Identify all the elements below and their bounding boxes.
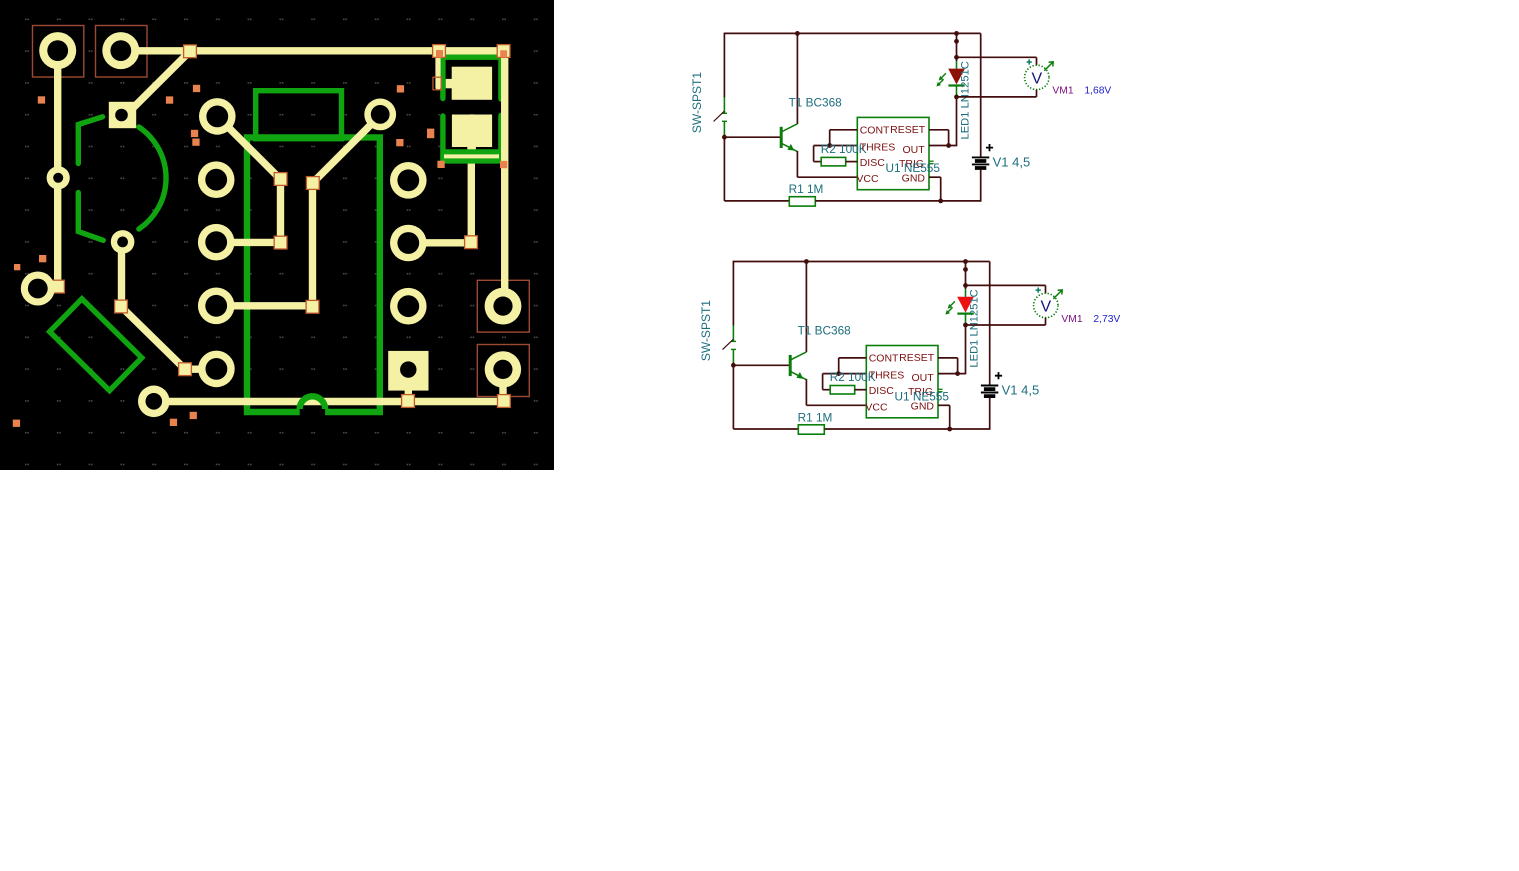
wire battery top [980, 33, 982, 157]
wire base net [724, 136, 780, 138]
svg-text:U1 NE555: U1 NE555 [886, 161, 941, 175]
svg-text:CONT: CONT [869, 353, 899, 365]
LED LED1 arrow 1 [941, 73, 946, 78]
pad frame square around pad P1 [33, 26, 84, 78]
wire CONT net [830, 129, 858, 131]
pad P11 [198, 288, 235, 325]
svg-text:LED1 LN1251C: LED1 LN1251C [960, 61, 972, 139]
pad P3 (square pad with hole) [109, 102, 136, 128]
svg-text:VM1: VM1 [1061, 314, 1082, 325]
via P4 [47, 166, 70, 189]
svg-text:V1 4,5: V1 4,5 [1002, 383, 1040, 398]
voltmeter VM1 arrow [1053, 290, 1062, 299]
pad P2 [102, 32, 139, 69]
junction LED b [954, 39, 959, 44]
wire LED stub from junction J2 down [435, 51, 440, 88]
LED LED1 triangle [957, 297, 974, 313]
pad P14 [390, 162, 427, 199]
transistor T1 emitter lead [790, 371, 806, 379]
marker square j [500, 161, 507, 168]
svg-text:T1 BC368: T1 BC368 [789, 96, 843, 110]
voltmeter VM1 circle [1025, 65, 1049, 89]
pad P18 [485, 288, 522, 325]
pad P10 [198, 224, 235, 261]
wire emitter to VCC [805, 379, 807, 405]
capacitor C silkscreen flat side [78, 117, 103, 241]
junction J6 [306, 177, 319, 190]
wire pad P1 down to junction J9 [54, 51, 61, 287]
voltmeter VM1 circle [1034, 293, 1058, 317]
wire RESET net [929, 129, 949, 131]
junction J11 [306, 300, 319, 313]
wire collector net [796, 33, 798, 124]
marker square b [193, 85, 200, 92]
resistor R1 body [789, 197, 815, 206]
wire DISC net [846, 161, 858, 163]
marker square g [396, 139, 403, 146]
voltmeter VM1 plus [1027, 59, 1032, 64]
junction J2 orange fill [436, 50, 443, 58]
transistor T1 base bar [789, 355, 792, 376]
wire bottom rail left [733, 428, 798, 430]
junction GND/bottom [938, 199, 943, 204]
junction J12 [179, 363, 192, 376]
svg-text:LED1 LN1251C: LED1 LN1251C [969, 289, 981, 367]
marker square e [192, 139, 199, 146]
LED LED1 cathode lead [956, 86, 958, 96]
voltmeter VM1 plus [1036, 288, 1041, 293]
junction J2 [433, 45, 446, 58]
wire bottom net pad P7 to junction J14 [154, 398, 504, 405]
switch SW-SPST1 contact tick top [722, 112, 727, 114]
transistor T1 emitter arrow [787, 144, 794, 151]
LED LED1 triangle [948, 69, 965, 85]
wire GND net [938, 404, 950, 406]
wire collector net [805, 261, 807, 352]
pad P12 [198, 351, 235, 388]
battery V1 plus [986, 144, 993, 151]
diode D silkscreen outline (rotated) [50, 299, 142, 391]
IC U1 silkscreen outline (DIP-8) [247, 137, 380, 412]
resistor R1 body [798, 425, 824, 434]
svg-text:RESET: RESET [899, 352, 935, 364]
svg-text:T1 BC368: T1 BC368 [798, 324, 852, 338]
wire junction J9 to pad P6 [38, 283, 58, 290]
marker square m [13, 420, 20, 427]
junction LED bottom [954, 95, 959, 100]
svg-text:DISC: DISC [860, 157, 886, 169]
junction J14 [498, 395, 511, 408]
wire voltmeter bottom [1045, 318, 1047, 325]
wire LED top [965, 262, 967, 290]
marker square a [38, 96, 45, 103]
switch SW-SPST1 pin bottom [732, 349, 734, 363]
junction LED bottom [963, 323, 968, 328]
wire RESET net [938, 357, 958, 359]
wire voltmeter bottom [1036, 90, 1038, 97]
pad P17 (square pad with hole) [388, 351, 428, 391]
wire voltmeter top [957, 56, 1037, 58]
junction LED b [963, 267, 968, 272]
wire left rail lower [723, 135, 725, 201]
resistor R silkscreen outline (top) [256, 91, 342, 139]
junction J9 [52, 280, 65, 293]
transistor T1 emitter arrow [796, 372, 803, 379]
wire OUT net [929, 145, 957, 147]
pad P19 [485, 351, 521, 387]
wire left rail lower [732, 363, 734, 429]
wire LED top [956, 33, 958, 61]
svg-text:VM1: VM1 [1052, 86, 1073, 97]
switch SW-SPST1 contact tick bottom [722, 120, 727, 122]
LED LED1 anode lead [965, 289, 967, 297]
junction CONT/THRES [827, 143, 832, 148]
junction J1 [184, 45, 197, 58]
svg-text:VCC: VCC [865, 401, 888, 413]
LED LED1 silkscreen right edge [498, 57, 503, 161]
wire GND net [929, 176, 941, 178]
junction J3 [497, 45, 510, 58]
pad P13 (resistor right) [364, 99, 396, 131]
LED LED1 cathode lead [965, 314, 967, 324]
PCB board background [0, 0, 554, 470]
capacitor C silkscreen circle [139, 127, 166, 229]
wire THRES net [814, 145, 858, 147]
LED LED1 SMD pad bottom [452, 115, 492, 148]
wire junction J10 diagonal to J12 to pad P12 [121, 307, 216, 370]
junction J3 orange fill [500, 50, 507, 57]
junction collector/top [795, 31, 800, 36]
wire LED bottom to OUT [956, 95, 958, 146]
wire battery top [989, 262, 991, 386]
pad P15 [390, 225, 427, 262]
LED LED1 silkscreen bottom bar 2 [442, 158, 501, 163]
marker square f [397, 85, 404, 92]
junction LED a [954, 31, 959, 36]
junction base [731, 363, 736, 368]
junction LED a [963, 259, 968, 264]
svg-text:CONT: CONT [860, 125, 890, 137]
junction CONT/THRES [836, 371, 841, 376]
LED LED1 footprint: inner pad strip [444, 154, 499, 159]
wire emitter to VCC [796, 151, 798, 177]
transistor T1 base bar [780, 127, 783, 148]
TRIG pin marks [929, 160, 933, 162]
transistor T1 collector lead [781, 124, 797, 132]
svg-text:R1 1M: R1 1M [789, 182, 824, 196]
svg-text:1,68V: 1,68V [1084, 86, 1111, 97]
pad P9 [198, 161, 235, 198]
svg-text:OUT: OUT [903, 144, 926, 156]
switch SW-SPST1 contact tick top [731, 340, 736, 342]
voltmeter VM1 arrow [1044, 62, 1053, 71]
wire voltmeter top [966, 284, 1046, 286]
junction J5 [274, 173, 287, 186]
wire base net [733, 364, 789, 366]
wire LED bottom to OUT [965, 323, 967, 374]
wire top net from pad P2 to LED corner [121, 47, 504, 54]
pad frame square around pad P18 [477, 280, 529, 332]
wire diagonal junction J1 to pad P3 [128, 51, 190, 113]
svg-text:U1 NE555: U1 NE555 [895, 389, 950, 403]
wire DISC net [855, 389, 867, 391]
marker square n [170, 419, 177, 426]
switch SW-SPST1 lever [714, 111, 725, 121]
marker square l [14, 264, 20, 270]
LED LED1 SMD pad top [452, 67, 492, 100]
marker square d [191, 130, 198, 137]
battery V1 plates [972, 157, 989, 164]
wire CONT net [839, 357, 867, 359]
wire pad P15 to junction J8 up to LED pad tab [408, 150, 471, 243]
LED LED1 cathode bar [948, 84, 964, 86]
transistor T1 emitter lead [781, 143, 797, 151]
wire pad P11 to junction J11 up to J6 diagonal to pad P13 [216, 116, 380, 306]
switch SW-SPST1 pin top [732, 325, 734, 341]
svg-text:THRES: THRES [860, 142, 896, 154]
battery V1 plus [995, 372, 1002, 379]
junction RESET/OUT [946, 143, 951, 148]
svg-text:R1 1M: R1 1M [798, 410, 833, 424]
wire OUT net [938, 373, 966, 375]
resistor R2 body [830, 386, 855, 395]
marker square k [39, 255, 46, 262]
svg-text:VCC: VCC [856, 173, 879, 185]
junction LED c [963, 283, 968, 288]
junction GND/bottom [947, 427, 952, 432]
svg-text:DISC: DISC [869, 385, 895, 397]
wire right vertical LED corner to pad P18 [501, 51, 508, 288]
junction J13 [402, 395, 415, 408]
wire top rail [733, 261, 989, 263]
IC U1 silkscreen notch (redrawn over bottom trace) [300, 396, 325, 409]
LED LED1 cathode bar [957, 313, 973, 315]
wire stub pad P19 to junction J14 [499, 386, 506, 402]
marker square o [190, 412, 197, 419]
marker square h [427, 129, 434, 139]
svg-text:V: V [1031, 71, 1042, 88]
wire battery bottom [989, 398, 991, 430]
LED LED1 silkscreen left edge [440, 57, 445, 162]
pad frame square around pad P19 [477, 345, 529, 397]
pad P8 (IC row left 1 / resistor) [199, 98, 236, 135]
wire bottom rail right [815, 200, 980, 202]
LED LED1 arrow 1 [950, 301, 955, 306]
LED LED1 arrow 2 [939, 79, 944, 84]
pad P6 [21, 272, 55, 306]
marker square c [166, 96, 173, 103]
resistor R2 body [821, 157, 846, 166]
LED LED1 silkscreen bottom bar 1 [444, 149, 499, 154]
junction J7 [274, 236, 287, 249]
LED LED1 pad tab left [446, 79, 452, 88]
marker square i [437, 161, 444, 168]
svg-text:V1 4,5: V1 4,5 [993, 155, 1031, 170]
TRIG pin marks [938, 388, 942, 390]
wire bottom rail right [824, 428, 989, 430]
svg-text:SW-SPST1: SW-SPST1 [699, 300, 713, 361]
pad P1 [39, 32, 76, 69]
LED LED1 arrow 2 [948, 307, 953, 312]
switch SW-SPST1 lever [723, 339, 734, 349]
switch SW-SPST1 pin top [723, 97, 725, 113]
pad P16 [390, 288, 427, 325]
switch SW-SPST1 contact tick bottom [731, 348, 736, 350]
wire stub pad P17 to junction J13 [405, 388, 412, 402]
IC U1 NE555 box [857, 117, 929, 189]
junction J10 [115, 300, 128, 313]
svg-text:RESET: RESET [890, 124, 926, 136]
svg-text:SW-SPST1: SW-SPST1 [690, 72, 704, 133]
LED LED1 silkscreen top edge [440, 54, 503, 60]
battery V1 plates [981, 386, 998, 393]
svg-text:THRES: THRES [869, 370, 905, 382]
wire bottom rail left [724, 200, 789, 202]
svg-text:2,73V: 2,73V [1093, 314, 1120, 325]
junction RESET/OUT [955, 371, 960, 376]
transistor T1 collector lead [790, 352, 806, 360]
LED LED1 anode lead [956, 61, 958, 69]
wire pad P5 down to junction J10 [118, 242, 125, 307]
junction base [722, 135, 727, 140]
junction LED c [954, 55, 959, 60]
junction J4 [433, 77, 441, 90]
pad P7 [138, 386, 170, 418]
LED LED1 pad tab bottom [467, 145, 476, 156]
pad P5 [111, 230, 135, 254]
IC U1 NE555 box [866, 346, 938, 418]
pad frame square around pad P2 [96, 26, 148, 78]
switch SW-SPST1 pin bottom [723, 121, 725, 135]
wire left rail upper [723, 33, 725, 98]
svg-text:OUT: OUT [912, 372, 935, 384]
wire pad P8 diagonal to junction J5 down J7 to pad P10 [216, 117, 280, 243]
junction J8 [465, 236, 478, 249]
wire THRES net [823, 373, 867, 375]
wire battery bottom [980, 170, 982, 202]
svg-text:V: V [1040, 299, 1051, 316]
wire top rail [724, 32, 980, 34]
wire left rail upper [732, 261, 734, 326]
junction collector/top [804, 259, 809, 264]
